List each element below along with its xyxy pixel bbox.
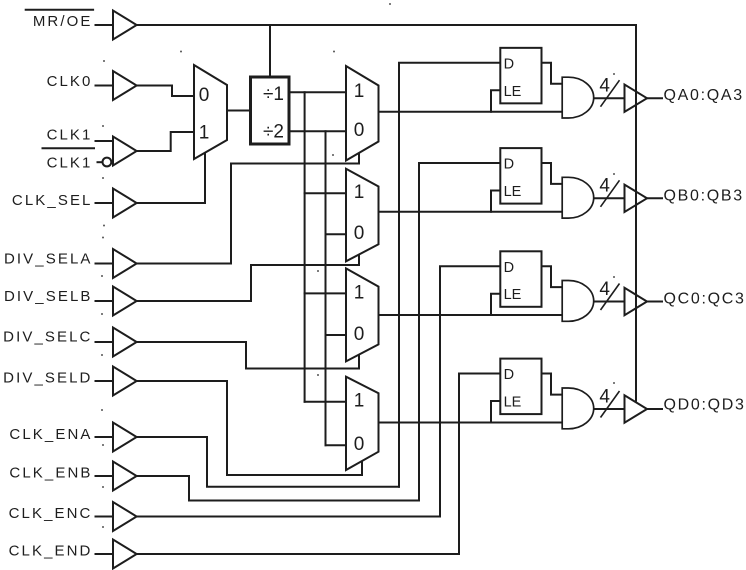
svg-text:1: 1 — [354, 182, 365, 203]
svg-text:LE: LE — [504, 395, 522, 411]
svg-text:QB0:QB3: QB0:QB3 — [664, 188, 744, 205]
svg-text:÷2: ÷2 — [263, 121, 284, 142]
svg-text:0: 0 — [354, 223, 365, 244]
svg-text:QA0:QA3: QA0:QA3 — [664, 87, 744, 104]
svg-text:LE: LE — [504, 287, 522, 303]
svg-text:1: 1 — [354, 81, 365, 102]
svg-text:QC0:QC3: QC0:QC3 — [664, 291, 746, 308]
svg-text:÷1: ÷1 — [263, 84, 284, 105]
svg-text:D: D — [504, 367, 514, 383]
svg-text:0: 0 — [354, 120, 365, 141]
svg-text:CLK_SEL: CLK_SEL — [12, 192, 93, 209]
svg-text:4: 4 — [599, 279, 610, 300]
svg-text:DIV_SELA: DIV_SELA — [4, 250, 93, 267]
svg-text:QD0:QD3: QD0:QD3 — [664, 396, 746, 413]
svg-text:1: 1 — [354, 391, 365, 412]
svg-text:0: 0 — [354, 324, 365, 345]
svg-text:D: D — [504, 260, 514, 276]
svg-text:D: D — [504, 157, 514, 173]
svg-text:0: 0 — [354, 434, 365, 455]
svg-text:D: D — [504, 56, 514, 72]
svg-text:LE: LE — [504, 84, 522, 100]
svg-text:CLK_ENA: CLK_ENA — [9, 426, 92, 443]
svg-text:0: 0 — [199, 85, 210, 106]
svg-text:CLK_ENC: CLK_ENC — [9, 505, 93, 522]
svg-text:CLK1: CLK1 — [47, 127, 93, 144]
svg-text:CLK0: CLK0 — [47, 73, 93, 90]
svg-text:DIV_SELC: DIV_SELC — [3, 328, 92, 345]
svg-text:1: 1 — [199, 122, 210, 143]
svg-text:DIV_SELB: DIV_SELB — [4, 288, 93, 305]
svg-text:DIV_SELD: DIV_SELD — [3, 369, 92, 386]
svg-text:4: 4 — [599, 176, 610, 197]
svg-text:CLK_END: CLK_END — [9, 542, 93, 559]
svg-text:CLK1: CLK1 — [47, 155, 93, 172]
svg-text:LE: LE — [504, 184, 522, 200]
svg-text:MR/OE: MR/OE — [33, 13, 93, 30]
svg-text:4: 4 — [599, 386, 610, 407]
svg-text:1: 1 — [354, 282, 365, 303]
svg-text:CLK_ENB: CLK_ENB — [9, 465, 92, 482]
svg-text:4: 4 — [599, 76, 610, 97]
